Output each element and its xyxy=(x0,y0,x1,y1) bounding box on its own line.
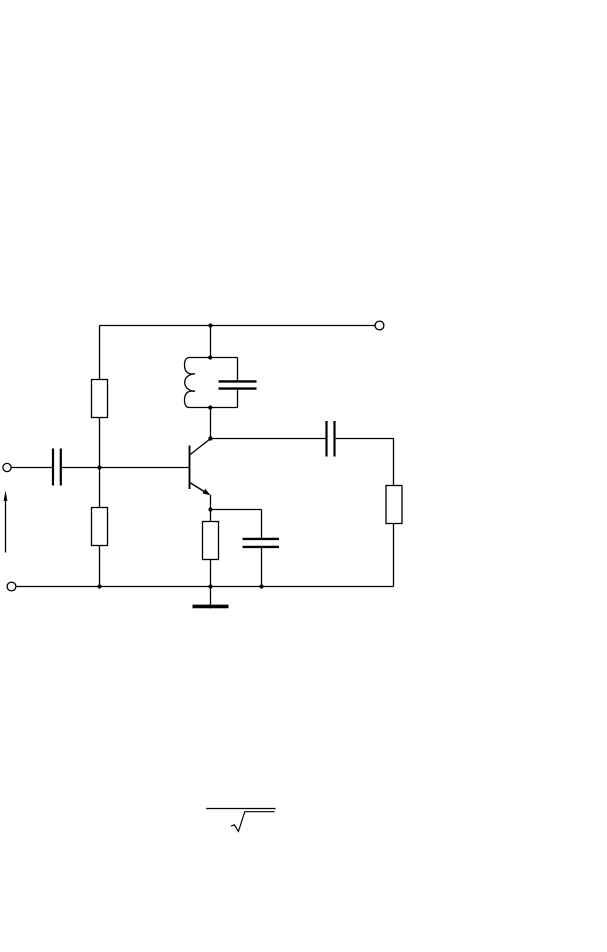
node: bottom rail / R2 xyxy=(97,584,101,588)
wire: RL to bottom rail xyxy=(393,524,395,587)
wire: emitter to bypass branch xyxy=(211,509,262,511)
wire: collector to C3 xyxy=(211,438,326,440)
terminal Vcc (open circle, top right) xyxy=(375,321,384,330)
wire: C4 to bottom rail xyxy=(261,548,263,586)
inductor L1 (three left-bulging loops) xyxy=(185,358,211,408)
capacitor C4 (emitter bypass) xyxy=(243,539,280,547)
transistor Q1 (NPN) xyxy=(190,439,211,496)
bottom rail wire xyxy=(16,586,394,588)
node: emitter leg / bottom rail xyxy=(208,584,212,588)
capacitor C1 (input coupling) xyxy=(53,449,61,486)
wire: input to C1 xyxy=(11,467,52,469)
ground xyxy=(193,587,229,609)
node: base / bias divider tap xyxy=(97,465,101,469)
node: tank bottom xyxy=(208,405,212,409)
capacitor C2 (tank capacitor) xyxy=(211,358,257,408)
node: C4 / bottom rail xyxy=(259,584,263,588)
wire: C3 to load corner xyxy=(336,439,394,486)
top supply rail wire xyxy=(100,325,376,327)
square root radical (formula) xyxy=(231,812,275,832)
resistor RL (load) xyxy=(386,486,402,524)
wire: emitter lead down xyxy=(210,495,212,510)
node: top rail junction xyxy=(208,323,212,327)
wire: tank bottom to collector node xyxy=(210,408,212,439)
node: collector xyxy=(208,436,212,440)
wire: RE to bottom rail xyxy=(210,560,212,587)
wire: R2 to bottom rail xyxy=(99,546,101,587)
terminal input (open circle) xyxy=(3,463,11,471)
wire: rail to tank top xyxy=(210,326,212,358)
terminal common (open circle, bottom left) xyxy=(7,582,16,591)
wire: R1 to base node xyxy=(99,418,101,468)
resistor R2 (lower bias) xyxy=(92,508,108,546)
wire: rail down to R1 xyxy=(99,326,101,380)
resistor R1 (upper bias) xyxy=(92,380,108,418)
wire: base xyxy=(62,467,189,469)
capacitor C3 (output coupling) xyxy=(327,421,335,457)
node: emitter xyxy=(208,507,212,511)
fraction bar (formula) xyxy=(206,808,275,810)
wire: base node to R2 xyxy=(99,468,101,508)
arrow: input signal xyxy=(4,491,8,553)
resistor RE (emitter) xyxy=(203,522,219,560)
node: tank top xyxy=(208,355,212,359)
wire: emitter to RE xyxy=(210,510,212,522)
wire: down to C4 xyxy=(261,510,263,538)
